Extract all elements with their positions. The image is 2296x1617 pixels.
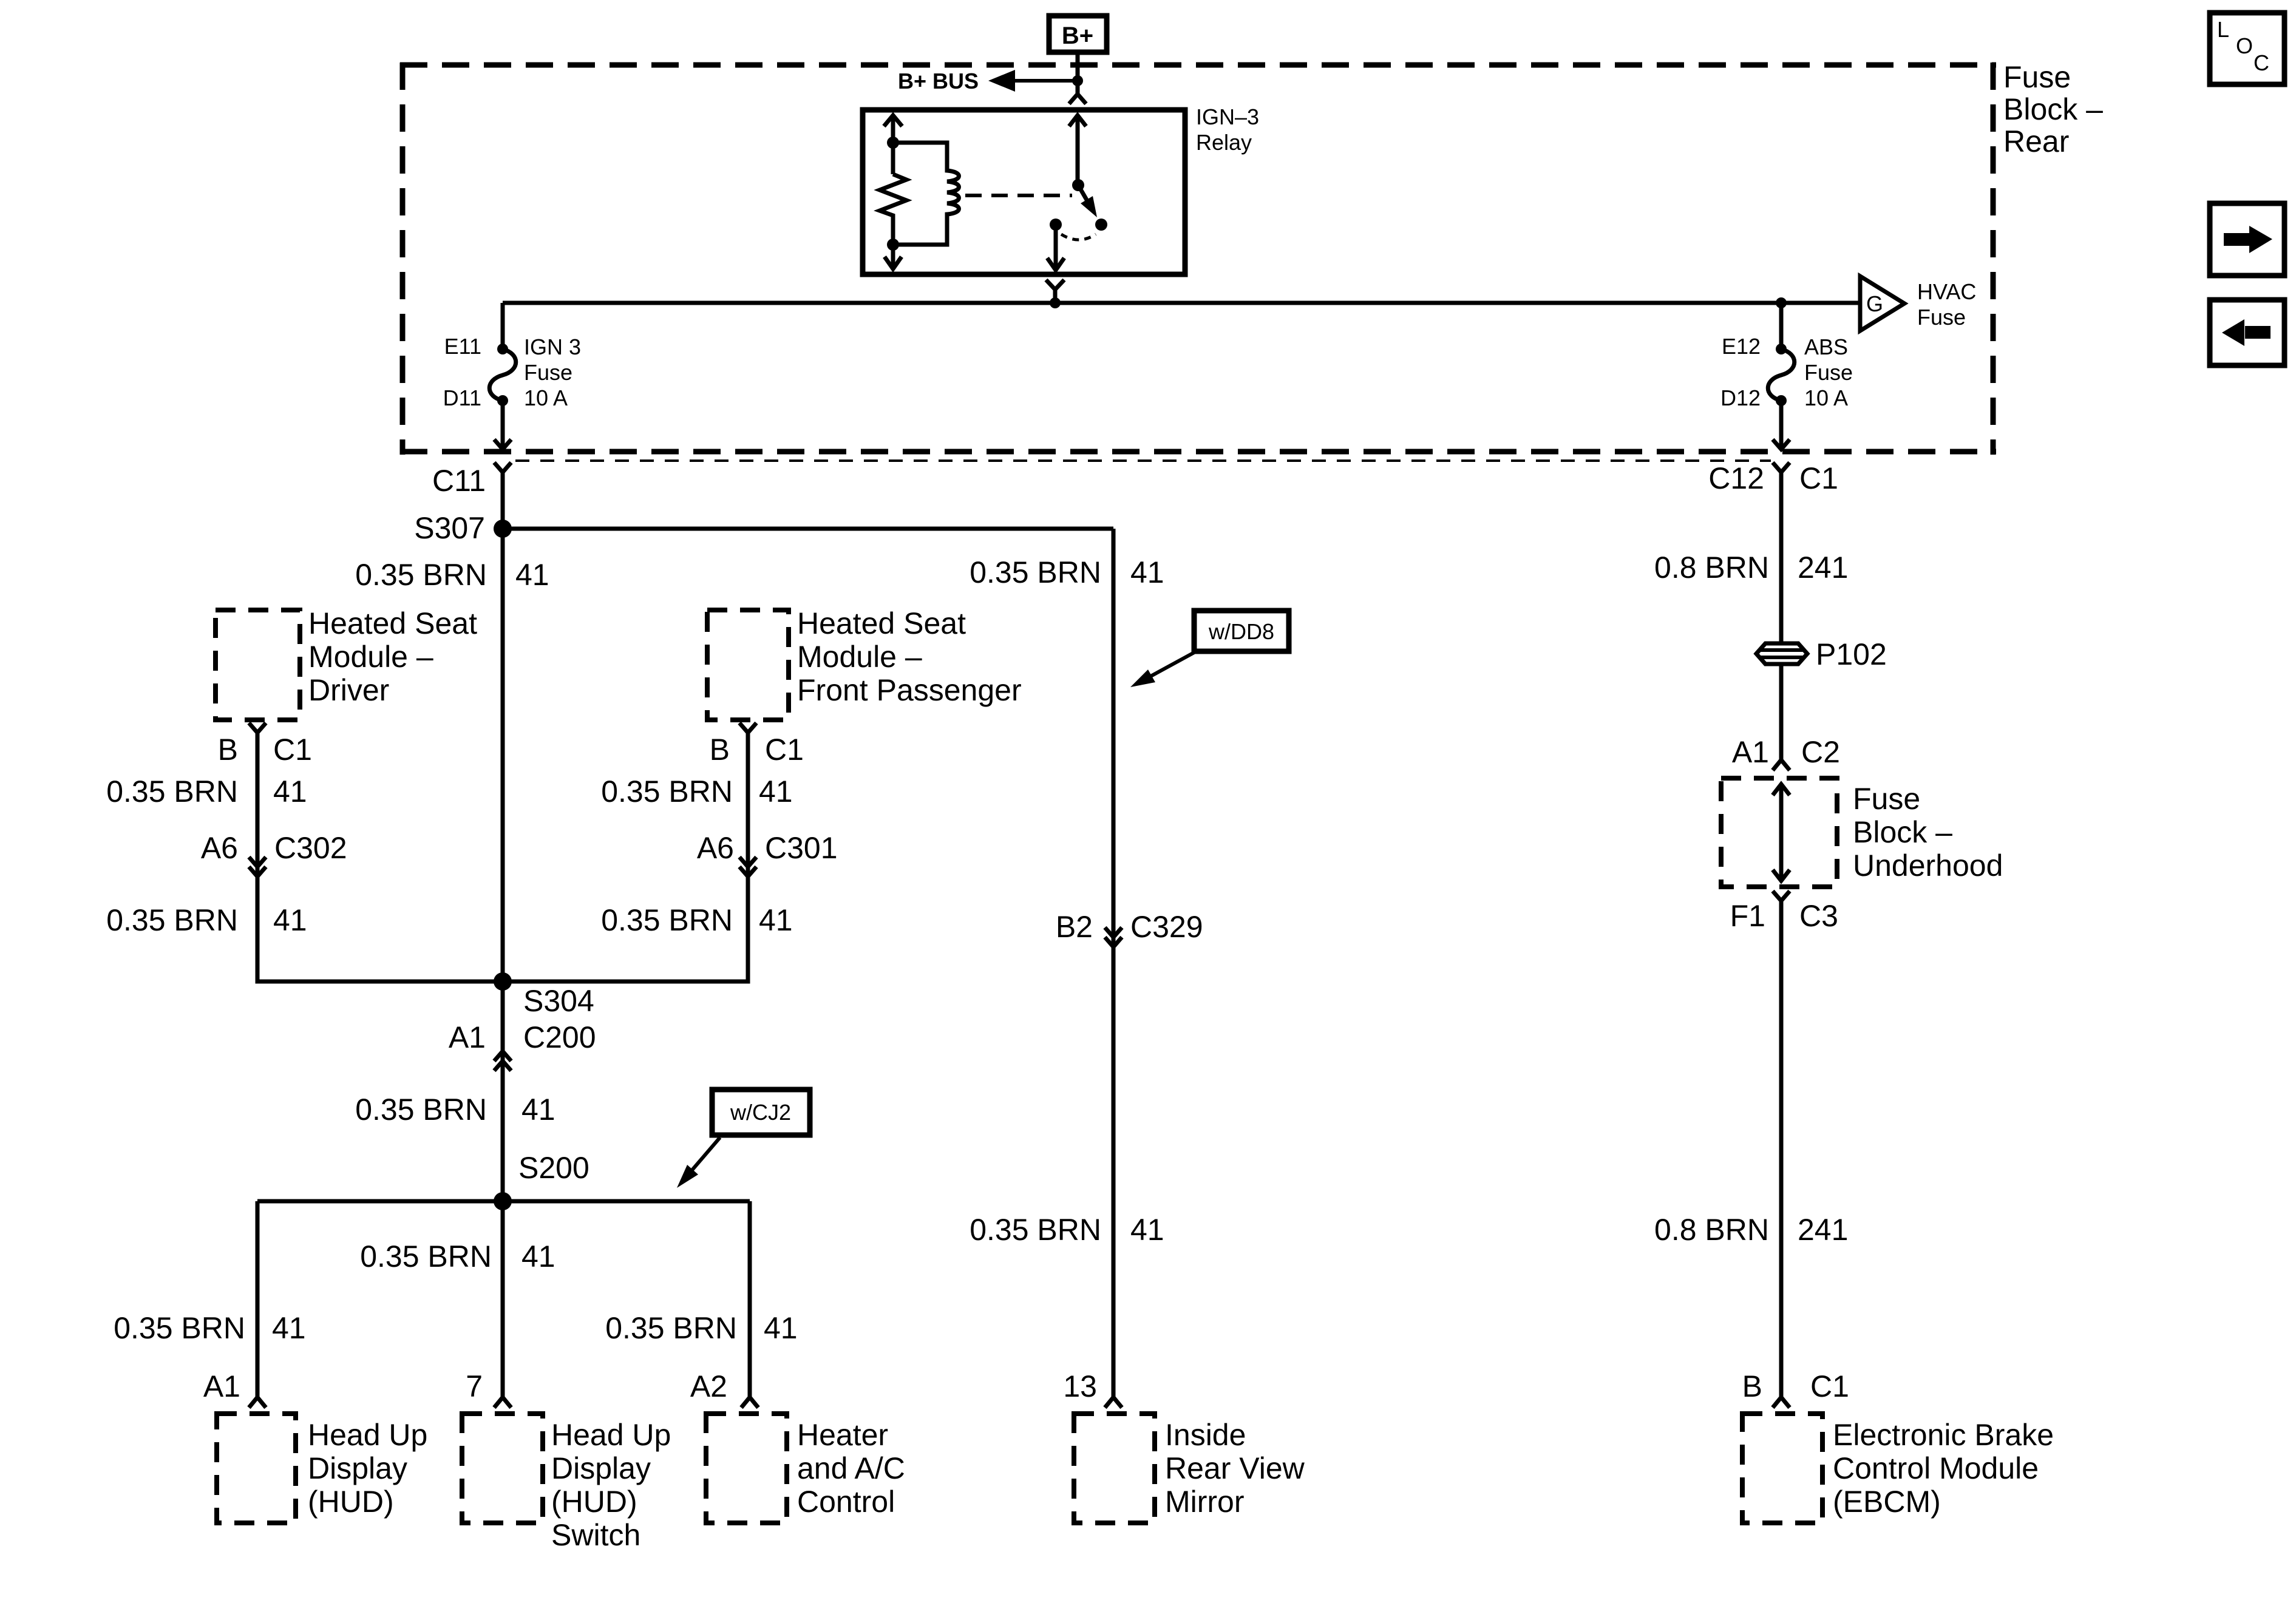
- node S304 splice: [494, 972, 512, 991]
- svg-text:C1: C1: [1799, 461, 1838, 495]
- wire driver module to S304: [257, 733, 503, 981]
- connector Y at driver module pin B: [249, 723, 266, 733]
- fuse IGN 3 10A: [489, 349, 516, 401]
- wire S307 branch to mirror: [1112, 529, 1116, 1397]
- svg-text:C200: C200: [523, 1020, 596, 1054]
- svg-text:Fuse: Fuse: [1853, 782, 1920, 816]
- wire C11 to HUD switch branch (main ignition feed): [501, 472, 505, 1397]
- fuse block - rear dashed border (bottom edge): [400, 449, 1996, 455]
- wire C12 to P102: [1779, 472, 1784, 643]
- svg-text:0.35 BRN: 0.35 BRN: [355, 1093, 487, 1127]
- svg-text:0.35 BRN: 0.35 BRN: [601, 775, 733, 808]
- svg-text:(HUD): (HUD): [308, 1485, 394, 1519]
- wire bus to ABS fuse: [1779, 303, 1784, 349]
- svg-text:0.35 BRN: 0.35 BRN: [605, 1311, 737, 1345]
- svg-text:A1: A1: [449, 1020, 486, 1054]
- node fuse pin E11: [497, 344, 508, 354]
- svg-text:0.8 BRN: 0.8 BRN: [1654, 1213, 1769, 1247]
- head up display box: [217, 1414, 296, 1523]
- svg-text:41: 41: [521, 1093, 555, 1127]
- svg-text:Control Module: Control Module: [1833, 1451, 2039, 1485]
- heater and a/c control box: [706, 1414, 787, 1523]
- wire S200 to HUD: [256, 1201, 260, 1397]
- svg-text:B+ BUS: B+ BUS: [898, 69, 979, 93]
- connector face dashed line C11-C12: [515, 459, 1771, 462]
- node fuse pin E12: [1776, 344, 1787, 354]
- wire passenger module to S304: [503, 733, 748, 981]
- relay actuation dashed link: [965, 194, 1072, 197]
- svg-text:O: O: [2236, 33, 2253, 58]
- svg-text:Control: Control: [797, 1485, 895, 1519]
- svg-text:0.35 BRN: 0.35 BRN: [970, 555, 1101, 589]
- wire underhood to EBCM: [1779, 901, 1784, 1397]
- wire B+ terminal to relay pin: [1076, 52, 1080, 94]
- svg-text:C11: C11: [432, 464, 486, 498]
- svg-text:(EBCM): (EBCM): [1833, 1485, 1941, 1519]
- svg-text:A6: A6: [201, 831, 238, 865]
- svg-text:0.8 BRN: 0.8 BRN: [1654, 551, 1769, 585]
- svg-text:13: 13: [1063, 1369, 1097, 1403]
- svg-text:Underhood: Underhood: [1853, 849, 2003, 883]
- svg-text:41: 41: [272, 1311, 306, 1345]
- svg-text:41: 41: [1130, 555, 1164, 589]
- svg-text:C12: C12: [1708, 461, 1764, 495]
- node relay switch pivot: [1072, 179, 1084, 191]
- node bus at relay output: [1050, 297, 1061, 308]
- connector chevron at mirror: [1105, 1397, 1122, 1408]
- svg-text:41: 41: [764, 1311, 798, 1345]
- svg-text:Fuse: Fuse: [1917, 305, 1966, 330]
- connector chevron at EBCM: [1773, 1397, 1790, 1408]
- svg-text:0.35 BRN: 0.35 BRN: [360, 1239, 492, 1273]
- svg-text:C329: C329: [1130, 910, 1203, 944]
- svg-text:P102: P102: [1816, 637, 1887, 671]
- connector Y at underhood pin F1: [1773, 891, 1790, 901]
- node relay output contact: [1050, 219, 1062, 231]
- connector chevron at heater control: [741, 1397, 758, 1408]
- svg-text:Heated Seat: Heated Seat: [797, 606, 966, 640]
- svg-text:7: 7: [466, 1369, 483, 1403]
- svg-text:A2: A2: [690, 1369, 727, 1403]
- wire relay switch common: [1076, 115, 1080, 185]
- wire D11 to fuse block edge: [494, 401, 511, 449]
- svg-text:Rear: Rear: [2003, 124, 2069, 158]
- svg-text:B: B: [710, 733, 730, 767]
- wire relay coil pin: [891, 115, 895, 174]
- svg-text:A1: A1: [203, 1369, 240, 1403]
- svg-text:w/CJ2: w/CJ2: [730, 1100, 791, 1125]
- legend arrow left box: [2210, 300, 2284, 365]
- wire relay output to bus: [1053, 290, 1058, 303]
- svg-text:Module –: Module –: [797, 640, 922, 674]
- relay coil winding L: [893, 143, 959, 245]
- svg-text:Heated Seat: Heated Seat: [308, 606, 477, 640]
- relay switch pin arrow (top): [1069, 115, 1086, 126]
- node B+ bus junction: [1072, 75, 1083, 86]
- head up display switch box: [462, 1414, 543, 1523]
- svg-text:41: 41: [759, 775, 793, 808]
- svg-text:41: 41: [521, 1239, 555, 1273]
- connector chevron at relay 30 pin: [1069, 94, 1086, 104]
- B+ power terminal box: [1049, 16, 1107, 52]
- connector C11 Y: [494, 463, 511, 472]
- svg-text:Electronic Brake: Electronic Brake: [1833, 1418, 2054, 1452]
- svg-text:41: 41: [1130, 1213, 1164, 1247]
- svg-text:Head Up: Head Up: [308, 1418, 427, 1452]
- svg-text:Block –: Block –: [1853, 815, 1952, 849]
- wire S200 to heater control: [748, 1201, 752, 1397]
- svg-text:C1: C1: [1810, 1369, 1849, 1403]
- svg-text:0.35 BRN: 0.35 BRN: [355, 558, 487, 592]
- callout box w/CJ2: [712, 1090, 810, 1135]
- svg-text:Fuse: Fuse: [2003, 60, 2071, 94]
- svg-text:Display: Display: [308, 1451, 407, 1485]
- connector chevron at HUD switch: [494, 1397, 511, 1408]
- node relay contact: [1095, 219, 1107, 231]
- svg-text:Display: Display: [551, 1451, 651, 1485]
- node bus ABS fuse tap: [1776, 297, 1787, 308]
- fuse block - rear dashed border (right edge): [1991, 63, 1996, 455]
- svg-text:Front Passenger: Front Passenger: [797, 673, 1022, 707]
- relay switch movable arm: [1078, 185, 1087, 201]
- svg-text:Heater: Heater: [797, 1418, 888, 1452]
- svg-text:B: B: [218, 733, 238, 767]
- svg-text:41: 41: [273, 775, 307, 808]
- svg-text:Module –: Module –: [308, 640, 433, 674]
- svg-text:IGN–3: IGN–3: [1196, 104, 1259, 129]
- B+ BUS arrowhead: [988, 70, 1015, 92]
- svg-text:C: C: [2254, 50, 2269, 75]
- svg-text:0.35 BRN: 0.35 BRN: [601, 903, 733, 937]
- heated seat module front passenger box: [707, 610, 789, 720]
- svg-text:0.35 BRN: 0.35 BRN: [106, 775, 238, 808]
- svg-text:F1: F1: [1730, 899, 1765, 933]
- svg-text:C1: C1: [765, 733, 804, 767]
- svg-text:D11: D11: [443, 385, 481, 410]
- electronic brake control module box: [1742, 1414, 1822, 1523]
- svg-text:Fuse: Fuse: [1804, 360, 1853, 385]
- svg-text:A1: A1: [1732, 735, 1769, 769]
- svg-text:41: 41: [515, 558, 549, 592]
- svg-text:Head Up: Head Up: [551, 1418, 671, 1452]
- svg-text:B+: B+: [1062, 22, 1093, 49]
- HVAC Fuse off-page triangle G: [1860, 276, 1904, 331]
- svg-text:C2: C2: [1801, 735, 1840, 769]
- wire S200 crossbar: [257, 1199, 750, 1204]
- svg-text:IGN 3: IGN 3: [524, 334, 581, 359]
- svg-text:C3: C3: [1799, 899, 1838, 933]
- svg-text:(HUD): (HUD): [551, 1485, 637, 1519]
- svg-text:241: 241: [1798, 1213, 1848, 1247]
- callout arrow w/DD8: [1147, 653, 1194, 678]
- wire B+ BUS feed: [1009, 79, 1078, 83]
- connector chevron at HUD: [249, 1397, 266, 1408]
- relay IGN-3 outline: [863, 110, 1185, 274]
- node fuse pin D12: [1776, 395, 1787, 406]
- svg-text:C1: C1: [273, 733, 312, 767]
- svg-text:S200: S200: [518, 1151, 589, 1185]
- wire D12 to fuse block edge: [1773, 401, 1790, 449]
- svg-text:B: B: [1742, 1369, 1762, 1403]
- fuse block - rear dashed border (left edge): [400, 63, 406, 455]
- svg-text:L: L: [2217, 17, 2229, 42]
- wire S307 to mirror branch: [503, 527, 1113, 531]
- svg-text:Block –: Block –: [2003, 92, 2103, 126]
- LOC legend box: [2210, 13, 2284, 84]
- svg-text:Relay: Relay: [1196, 130, 1252, 155]
- wire relay output pin: [1047, 225, 1064, 270]
- wire ignition 3 voltage bus: [503, 301, 1860, 305]
- connector Y at relay 87 pin: [1046, 280, 1064, 290]
- svg-text:Fuse: Fuse: [524, 360, 572, 385]
- svg-text:C302: C302: [274, 831, 347, 865]
- heated seat module driver box: [216, 610, 300, 720]
- legend arrow right box: [2210, 203, 2284, 276]
- resistor (relay suppression): [880, 174, 906, 245]
- fuse block - rear dashed border (top edge): [400, 63, 1996, 68]
- connector C12 Y: [1773, 463, 1790, 472]
- node fuse pin D11: [497, 395, 508, 406]
- svg-text:Rear View: Rear View: [1165, 1451, 1305, 1485]
- node relay coil bottom: [887, 239, 899, 251]
- svg-text:w/DD8: w/DD8: [1208, 619, 1274, 644]
- svg-text:0.35 BRN: 0.35 BRN: [970, 1213, 1101, 1247]
- callout box w/DD8: [1194, 611, 1289, 651]
- svg-text:C301: C301: [765, 831, 838, 865]
- svg-text:Driver: Driver: [308, 673, 389, 707]
- fuse ABS 10A: [1768, 349, 1795, 401]
- callout arrow w/CJ2: [691, 1137, 720, 1171]
- node S200 splice: [494, 1192, 512, 1210]
- connector chevron at underhood fuse block: [1773, 760, 1790, 770]
- inside rear view mirror box: [1074, 1414, 1155, 1523]
- relay coil pin arrow (bottom): [885, 245, 902, 269]
- svg-text:41: 41: [273, 903, 307, 937]
- svg-text:A6: A6: [697, 831, 734, 865]
- svg-text:ABS: ABS: [1804, 334, 1848, 359]
- svg-text:Inside: Inside: [1165, 1418, 1246, 1452]
- fuse block - underhood internal feed arrow: [1773, 784, 1790, 881]
- svg-text:G: G: [1866, 291, 1883, 316]
- svg-text:Switch: Switch: [551, 1518, 640, 1552]
- node relay coil top: [887, 137, 899, 149]
- svg-text:241: 241: [1798, 551, 1848, 585]
- svg-text:E12: E12: [1722, 334, 1761, 359]
- node S307 splice: [494, 520, 512, 538]
- svg-text:S307: S307: [414, 511, 485, 545]
- svg-text:Mirror: Mirror: [1165, 1485, 1245, 1519]
- svg-text:E11: E11: [444, 334, 481, 359]
- wire P102 to underhood fuse block: [1779, 664, 1784, 760]
- svg-text:HVAC: HVAC: [1917, 279, 1976, 304]
- svg-text:41: 41: [759, 903, 793, 937]
- svg-text:B2: B2: [1056, 910, 1093, 944]
- grommet pass-through P102: [1756, 643, 1807, 664]
- relay coil pin arrow (top): [884, 115, 902, 126]
- svg-text:and A/C: and A/C: [797, 1451, 905, 1485]
- svg-text:10 A: 10 A: [524, 385, 568, 410]
- svg-text:0.35 BRN: 0.35 BRN: [106, 903, 238, 937]
- connector Y at passenger module pin B: [739, 723, 756, 733]
- fuse block - underhood box: [1721, 778, 1837, 887]
- relay switch travel dashed arc: [1061, 234, 1096, 240]
- svg-text:S304: S304: [523, 984, 594, 1018]
- svg-text:0.35 BRN: 0.35 BRN: [114, 1311, 245, 1345]
- svg-text:10 A: 10 A: [1804, 385, 1848, 410]
- wire bus to IGN 3 fuse: [501, 303, 505, 349]
- svg-text:D12: D12: [1720, 385, 1761, 410]
